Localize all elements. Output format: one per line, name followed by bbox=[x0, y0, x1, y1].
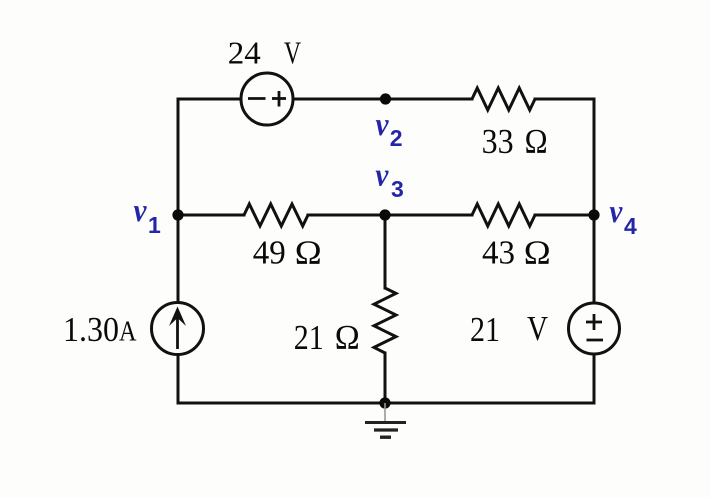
svg-text:Ω: Ω bbox=[295, 234, 322, 271]
svg-text:2: 2 bbox=[390, 125, 403, 151]
svg-text:Ω: Ω bbox=[524, 234, 551, 271]
svg-text:Ω: Ω bbox=[335, 318, 360, 357]
svg-text:49: 49 bbox=[253, 234, 286, 271]
svg-text:1: 1 bbox=[148, 212, 161, 238]
svg-text:A: A bbox=[119, 315, 137, 347]
svg-text:V: V bbox=[527, 309, 548, 348]
svg-text:21: 21 bbox=[294, 318, 324, 357]
svg-text:1.30: 1.30 bbox=[63, 310, 119, 349]
svg-text:v: v bbox=[609, 194, 622, 230]
svg-text:V: V bbox=[284, 35, 301, 71]
svg-text:33: 33 bbox=[482, 122, 514, 161]
svg-text:43: 43 bbox=[482, 234, 515, 271]
svg-text:v: v bbox=[134, 193, 147, 229]
svg-text:Ω: Ω bbox=[525, 122, 548, 161]
svg-text:4: 4 bbox=[624, 213, 637, 239]
svg-text:v: v bbox=[376, 107, 389, 143]
svg-text:21: 21 bbox=[470, 310, 500, 349]
svg-text:24: 24 bbox=[228, 35, 261, 71]
svg-text:3: 3 bbox=[391, 176, 404, 202]
svg-text:v: v bbox=[375, 158, 388, 194]
